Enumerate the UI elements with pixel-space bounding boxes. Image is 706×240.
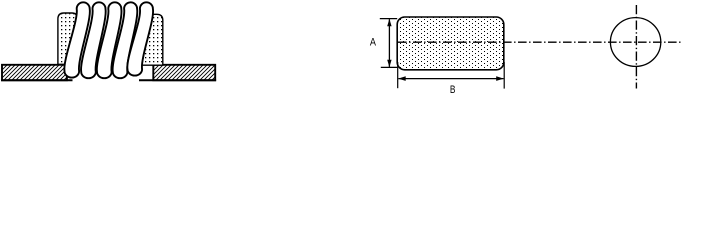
end view circle <box>610 18 660 67</box>
dim A extension line top <box>380 18 397 20</box>
centerline vertical (dash-dot) <box>635 5 637 89</box>
dim B extension line left <box>397 62 399 88</box>
coil turn 1 <box>64 2 90 77</box>
coil turn 5 <box>127 2 153 75</box>
core left end (stippled) <box>58 13 77 64</box>
coil turn 3 <box>97 2 122 78</box>
coil turn 4 <box>113 2 138 78</box>
dim A arrowhead top <box>387 19 391 26</box>
pcb land (pad) left, hatched <box>2 65 67 80</box>
dim B extension line right <box>503 62 505 89</box>
board surface line left <box>1 79 72 81</box>
core body outline (side view, stippled) <box>397 17 504 70</box>
dim B arrowhead right <box>496 76 504 81</box>
svg-text:A: A <box>370 37 377 49</box>
coil turn 2 <box>81 2 106 78</box>
pcb land (pad) right, hatched <box>153 65 215 80</box>
svg-text:B: B <box>450 84 456 96</box>
core right end (stippled) <box>142 14 163 65</box>
dim A line <box>388 19 390 67</box>
board surface line right <box>139 79 216 81</box>
dim B line <box>398 78 503 80</box>
dim A arrowhead bottom <box>387 60 391 67</box>
dim A extension line bottom <box>381 66 397 68</box>
dim B arrowhead left <box>398 76 406 81</box>
centerline horizontal (dash-dot) <box>398 41 681 43</box>
